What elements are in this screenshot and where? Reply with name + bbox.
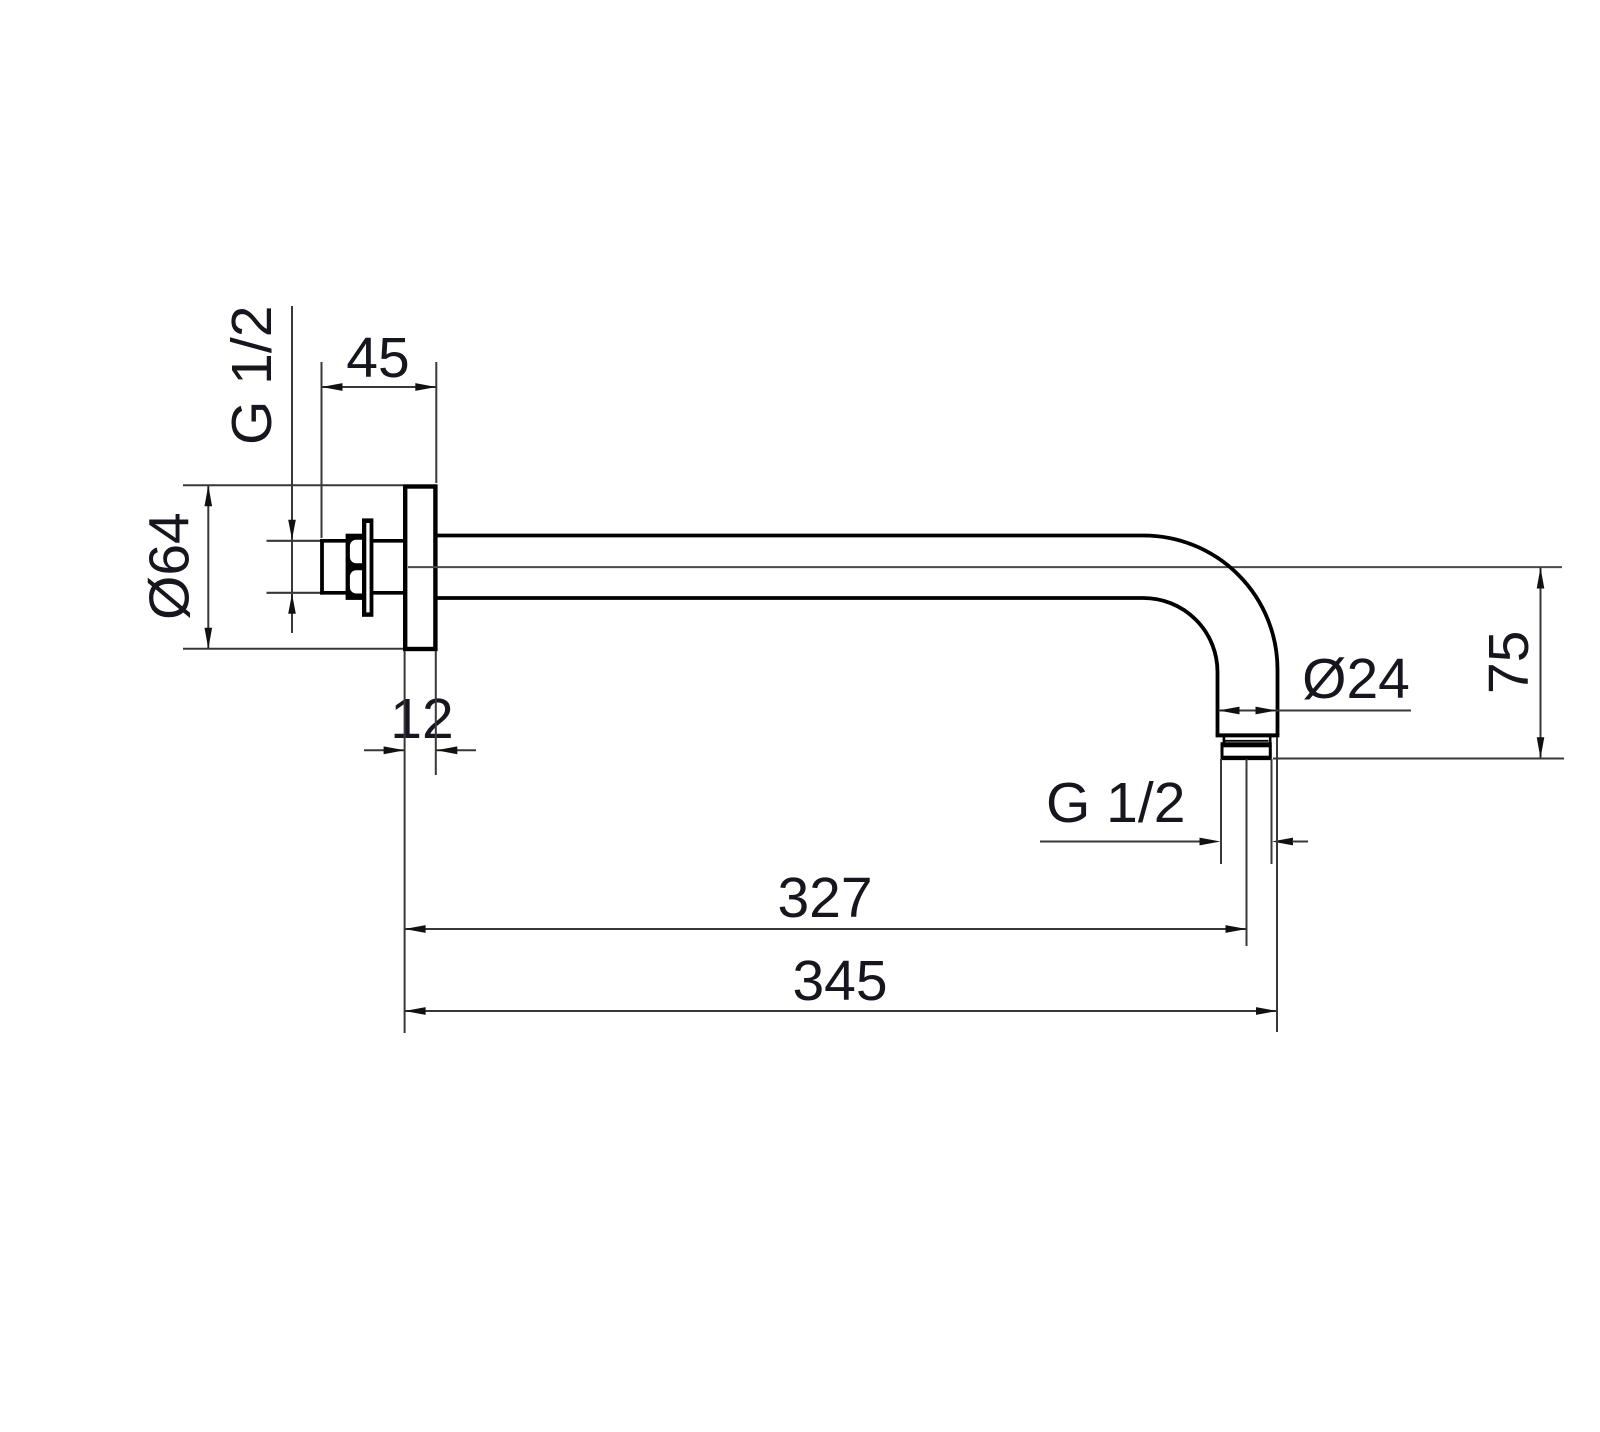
arm tube top line: [437, 534, 1144, 538]
svg-text:Ø64: Ø64: [138, 512, 202, 620]
svg-text:327: 327: [777, 866, 872, 930]
wall stub pipe outline: [320, 539, 403, 543]
thread crest line bottom (wall stub): [267, 592, 325, 594]
threaded tip: [1225, 740, 1269, 742]
svg-text:Ø24: Ø24: [1302, 647, 1410, 711]
svg-text:G 1/2: G 1/2: [220, 306, 284, 445]
pipe vertical outer line: [1276, 670, 1280, 736]
75 dimension: [1477, 631, 1541, 694]
nut: [346, 534, 362, 600]
flange escutcheon plate: [405, 487, 435, 650]
svg-text:12: 12: [390, 687, 453, 751]
Ø64 dimension: [138, 512, 202, 620]
svg-text:345: 345: [792, 949, 887, 1013]
arm tube bottom line: [437, 596, 1144, 600]
G 1/2 top leader line with arrows: [291, 306, 293, 633]
centerline of arm: [408, 566, 1562, 568]
pipe vertical inner line: [1216, 672, 1220, 735]
svg-text:G 1/2: G 1/2: [1046, 771, 1185, 835]
neck undercut: [1223, 737, 1226, 743]
thread crest line top (wall stub): [267, 540, 325, 542]
G 1/2 top label: [220, 306, 284, 445]
washer disc: [362, 518, 373, 616]
inner bend arc: [1144, 598, 1218, 672]
pipe end line: [1216, 733, 1280, 737]
svg-text:75: 75: [1477, 631, 1541, 694]
outer bend arc: [1144, 536, 1278, 670]
svg-text:45: 45: [346, 326, 409, 390]
